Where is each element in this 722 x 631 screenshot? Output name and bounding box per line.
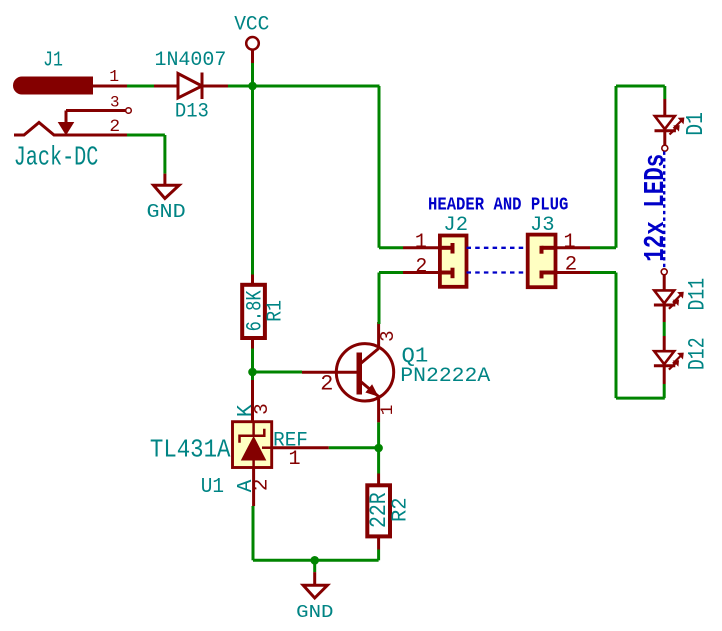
svg-text:2: 2: [109, 117, 120, 137]
wire R1 to base node: [251, 349, 254, 381]
resistor R2 body: [367, 485, 390, 536]
svg-text:J2: J2: [443, 214, 468, 237]
connector J2 pin2 stub: [441, 271, 453, 275]
junction at VCC node: [248, 82, 257, 91]
wire J2 pin2 to Q1 collector: [379, 271, 403, 274]
svg-text:J3: J3: [530, 214, 555, 237]
svg-text:VCC: VCC: [234, 13, 269, 36]
connector J1 barrel jack body: [14, 78, 92, 94]
ground GND bottom: [313, 572, 316, 585]
connector J2 pin1 stub: [441, 246, 453, 250]
LED D11: [663, 275, 666, 291]
LED D1: [663, 99, 666, 116]
diode D13 triangle: [178, 74, 202, 99]
svg-text:1N4007: 1N4007: [155, 49, 227, 72]
svg-text:1: 1: [415, 230, 427, 253]
ground GND top: [163, 174, 166, 186]
dashed line 12x LEDs: [663, 152, 665, 269]
transistor Q1 collector: [360, 349, 379, 365]
junction base node: [248, 368, 257, 377]
resistor R1 body: [242, 285, 265, 338]
J1 pin 1 lead: [92, 85, 127, 88]
wire base node to U1 cathode: [251, 372, 254, 380]
transistor Q1 emitter arrow: [366, 385, 377, 396]
dashed link pin2: [467, 271, 528, 273]
resistor R2 top lead: [377, 474, 380, 486]
wire to GND: [313, 560, 316, 572]
wire D12 to bottom corner: [663, 384, 666, 398]
connector J2 pin leads: [403, 246, 440, 249]
svg-text:HEADER AND PLUG: HEADER AND PLUG: [428, 195, 568, 215]
wire D13 to VCC junction: [228, 85, 380, 88]
wire jack pin1 to D13: [127, 85, 154, 88]
wire R2 to bottom rail: [377, 550, 380, 561]
power symbol VCC: [246, 37, 259, 50]
svg-text:1: 1: [288, 448, 300, 471]
U1 internal pin stubs: [252, 422, 255, 436]
resistor R1 top lead: [251, 275, 254, 285]
resistor R2 bottom lead: [377, 536, 380, 549]
wire J3 pin1 up: [590, 246, 616, 249]
svg-text:D1: D1: [683, 112, 710, 136]
connector J3 pin1 stub: [542, 246, 555, 250]
svg-text:12x LEDs: 12x LEDs: [639, 154, 672, 262]
wire VCC node to J2 pin1: [378, 86, 381, 248]
wire VCC node down to R1: [251, 86, 254, 275]
svg-text:Jack-DC: Jack-DC: [14, 144, 99, 174]
U1 internal triangle: [242, 437, 266, 460]
junction emitter node: [374, 444, 383, 453]
wire J3 pin2 down: [590, 271, 616, 274]
J1 pin 3 open end circle: [126, 108, 132, 114]
svg-text:1: 1: [109, 67, 119, 86]
wire bottom rail: [253, 559, 379, 562]
svg-text:D12: D12: [685, 337, 711, 370]
diode D13 cathode bar: [201, 73, 204, 100]
wire emitter to node: [377, 422, 380, 473]
wire U1 anode down: [252, 506, 255, 560]
connector J3 body: [528, 235, 556, 288]
svg-text:R1: R1: [264, 300, 287, 322]
LED D12: [663, 336, 666, 351]
svg-text:2: 2: [320, 372, 333, 397]
transistor Q1 base lead: [302, 371, 357, 374]
LED D12 arrows: [673, 356, 681, 364]
svg-text:GND: GND: [147, 201, 186, 223]
wire VCC to junction: [251, 63, 254, 86]
wire to D1: [663, 86, 666, 99]
diode D13 leads: [154, 85, 178, 88]
wire D11 to D12: [663, 322, 666, 336]
IC U1 TL431A body: [233, 422, 272, 468]
transistor Q1 circle: [336, 344, 393, 401]
svg-text:2: 2: [565, 253, 577, 276]
resistor R1 bottom lead: [251, 338, 254, 349]
svg-text:3: 3: [377, 330, 399, 341]
svg-text:GND: GND: [296, 602, 333, 623]
junction bottom rail: [310, 556, 319, 565]
transistor Q1 emitter: [360, 381, 379, 397]
svg-text:1: 1: [563, 231, 575, 254]
LED D1 open pin end: [662, 145, 668, 151]
U1 cathode lead: [251, 380, 254, 422]
svg-text:PN2222A: PN2222A: [400, 365, 491, 388]
U1 anode lead: [252, 468, 255, 507]
U1 REF lead: [272, 446, 329, 449]
wire jack sleeve to GND: [127, 134, 165, 137]
J1 sleeve zigzag pin 2: [14, 123, 127, 136]
U1 internal cathode bar: [240, 429, 265, 443]
svg-text:R2: R2: [388, 497, 412, 522]
connector J3 pin leads: [556, 246, 591, 249]
transistor Q1 base bar: [357, 353, 363, 395]
svg-text:1: 1: [378, 405, 398, 416]
svg-text:D13: D13: [175, 101, 209, 124]
svg-text:3: 3: [110, 94, 119, 112]
J1 pin 3 arrow: [60, 123, 73, 134]
connector J2 body: [440, 236, 467, 287]
svg-text:3: 3: [251, 403, 273, 415]
connector J3 pin2 stub: [542, 271, 555, 275]
svg-text:TL431A: TL431A: [150, 436, 231, 465]
LED D11 open pin end: [661, 269, 667, 275]
wire base node to Q1: [253, 371, 303, 374]
wire REF to emitter node: [329, 446, 379, 449]
svg-text:2: 2: [415, 255, 427, 278]
J1 pin 3 switch lead: [66, 109, 126, 112]
svg-text:U1: U1: [201, 476, 224, 499]
svg-text:J1: J1: [43, 49, 63, 73]
dashed link pin1: [467, 247, 528, 249]
LED D1 arrows: [674, 121, 682, 129]
LED D11 arrows: [673, 295, 681, 303]
svg-text:D11: D11: [685, 278, 711, 311]
